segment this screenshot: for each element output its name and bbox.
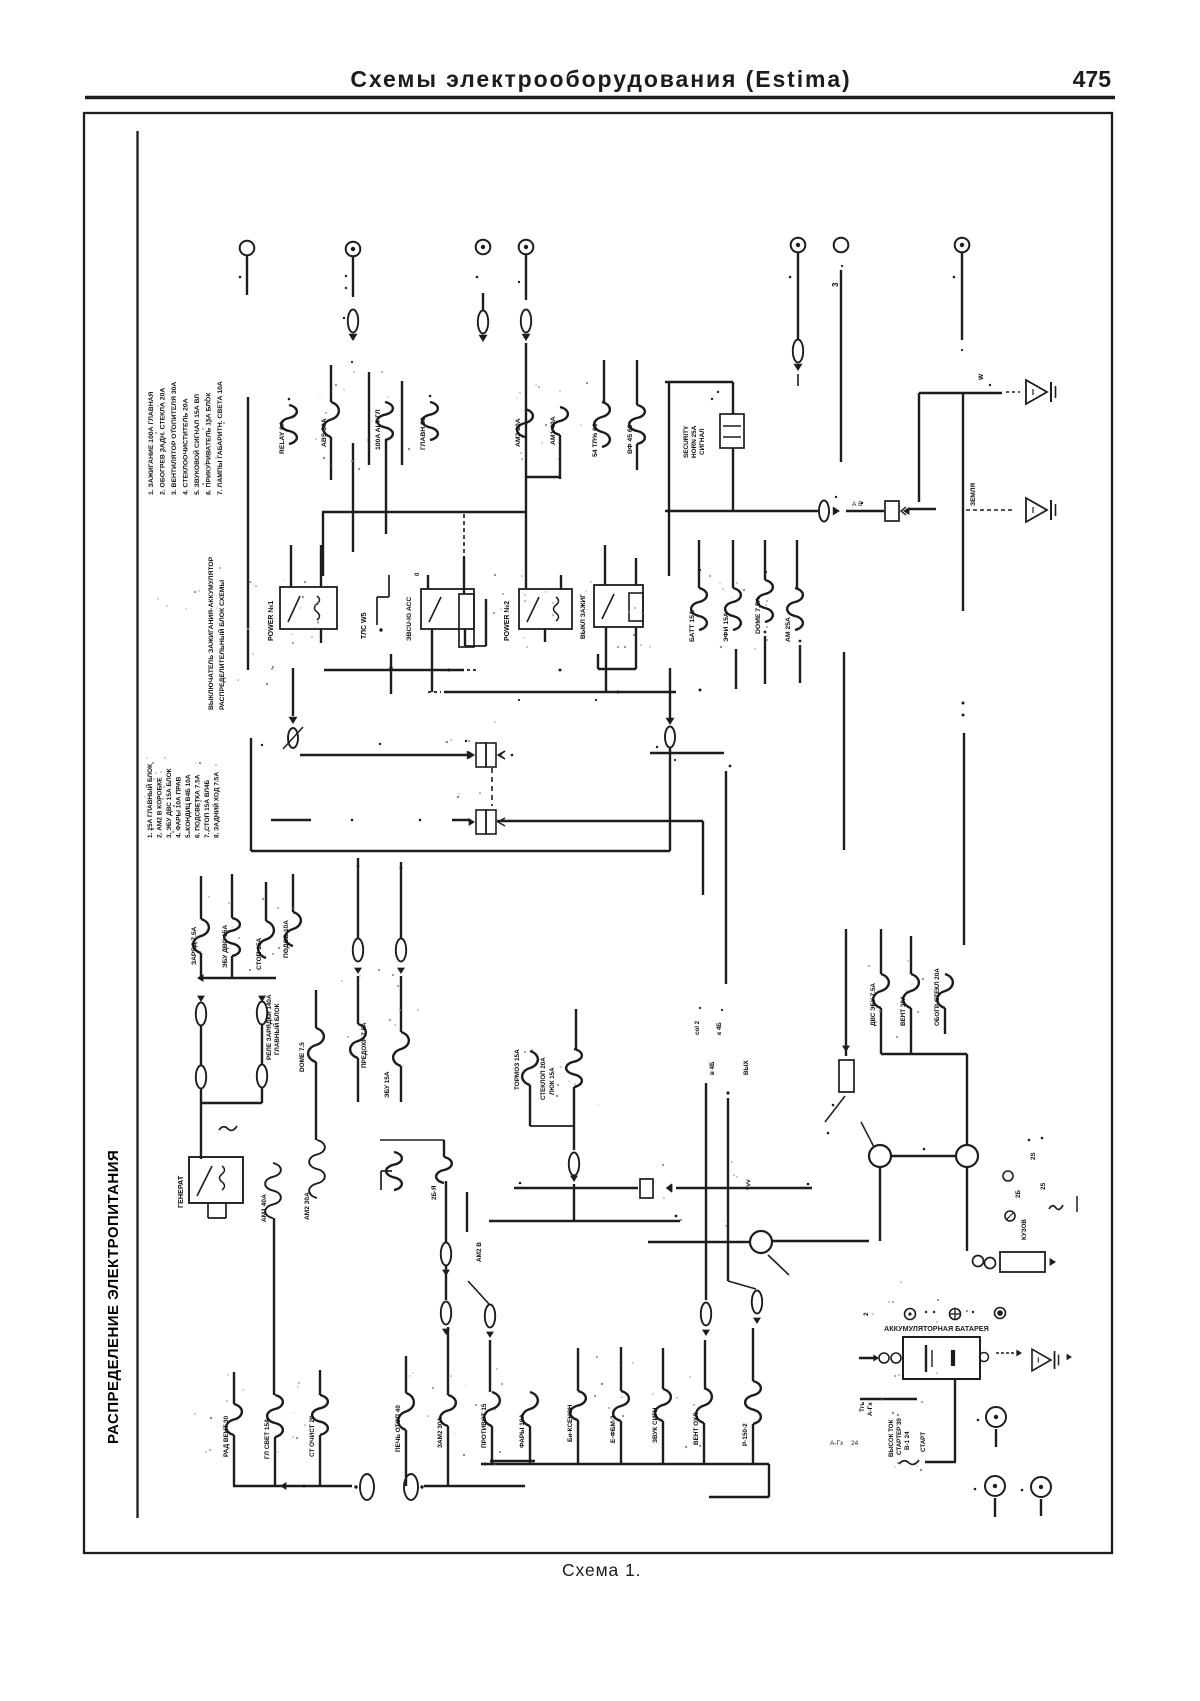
svg-text:Тгь: Тгь (859, 1402, 866, 1412)
svg-text:AM2 30A: AM2 30A (515, 418, 522, 447)
svg-text:2: 2 (863, 1312, 870, 1316)
svg-text:2S: 2S (1030, 1152, 1037, 1160)
svg-text:ОБОГР СТЕКЛ 20А: ОБОГР СТЕКЛ 20А (934, 968, 941, 1026)
svg-text:4. ФАРЫ 10А ПРАВ: 4. ФАРЫ 10А ПРАВ (176, 776, 183, 838)
svg-text:ПРЕДОХР 7.5А: ПРЕДОХР 7.5А (361, 1022, 368, 1068)
svg-text:АМ1 40А: АМ1 40А (261, 1194, 268, 1222)
svg-text:DOME 7.5: DOME 7.5 (299, 1042, 306, 1072)
svg-text:6. ПОДСВЕТКА 7.5А: 6. ПОДСВЕТКА 7.5А (195, 774, 202, 838)
svg-text:5. ЗВУКОВОЙ СИГНАЛ 15А ВЛ: 5. ЗВУКОВОЙ СИГНАЛ 15А ВЛ (192, 394, 201, 495)
svg-text:ТЛС W5: ТЛС W5 (361, 612, 368, 639)
svg-text:1. 25А ГЛАВНЫЙ БЛОК: 1. 25А ГЛАВНЫЙ БЛОК (145, 764, 154, 838)
svg-text:ЛЮК 15А: ЛЮК 15А (549, 1067, 556, 1095)
svg-text:2. АМ2 В КОРОБКЕ: 2. АМ2 В КОРОБКЕ (157, 777, 164, 838)
svg-text:100A ALT ГЛ: 100A ALT ГЛ (375, 409, 382, 450)
svg-text:СТАРТ: СТАРТ (920, 1432, 927, 1452)
svg-text:СТ ОЧИСТ 20: СТ ОЧИСТ 20 (309, 1415, 316, 1457)
svg-text:Би-КСЕНОН: Би-КСЕНОН (567, 1404, 574, 1442)
svg-text:ВФ 45 60: ВФ 45 60 (627, 424, 634, 454)
svg-text:ВЕНТ ОХЛ: ВЕНТ ОХЛ (693, 1412, 700, 1445)
svg-text:ГЛ СВЕТ 15А: ГЛ СВЕТ 15А (264, 1418, 271, 1459)
svg-text:РАСПРЕДЕЛЕНИЕ ЭЛЕКТРОПИТАНИЯ: РАСПРЕДЕЛЕНИЕ ЭЛЕКТРОПИТАНИЯ (105, 1150, 122, 1444)
svg-text:25: 25 (1040, 1182, 1047, 1190)
svg-text:ЭБУ ДВС 15А: ЭБУ ДВС 15А (222, 925, 229, 968)
svg-text:СИГНАЛ: СИГНАЛ (699, 428, 706, 455)
svg-text:ГЕНЕРАТ: ГЕНЕРАТ (176, 1175, 185, 1208)
svg-text:ГЛАВНЫЙ БЛОК: ГЛАВНЫЙ БЛОК (272, 1003, 281, 1055)
svg-text:3. ЭБУ ДВС 15А БЛОК: 3. ЭБУ ДВС 15А БЛОК (166, 768, 173, 838)
svg-text:ЗАМ2 30А: ЗАМ2 30А (437, 1417, 444, 1448)
svg-text:RELAY 6A: RELAY 6A (279, 421, 286, 454)
svg-text:ГЛАВН 80: ГЛАВН 80 (420, 417, 427, 450)
svg-text:СТАРТЕР 30: СТАРТЕР 30 (896, 1418, 903, 1455)
svg-text:АККУМУЛЯТОРНАЯ БАТАРЕЯ: АККУМУЛЯТОРНАЯ БАТАРЕЯ (884, 1324, 989, 1333)
svg-text:ПОДСВ 10А: ПОДСВ 10А (283, 920, 290, 958)
svg-text:ПРОТИВОТ 15: ПРОТИВОТ 15 (481, 1403, 488, 1448)
svg-text:ЭBCU-IG АСС: ЭBCU-IG АСС (406, 597, 413, 641)
svg-text:АМ2 30А: АМ2 30А (304, 1192, 311, 1220)
svg-text:ДВС ЭБУ 7.5А: ДВС ЭБУ 7.5А (870, 983, 877, 1026)
svg-text:Р-150-2: Р-150-2 (742, 1423, 749, 1446)
svg-text:ВЫХ: ВЫХ (743, 1059, 750, 1075)
svg-text:4. СТЕКЛООЧИСТИТЕЛЬ 20А: 4. СТЕКЛООЧИСТИТЕЛЬ 20А (183, 398, 190, 495)
svg-text:POWER №2: POWER №2 (503, 601, 511, 641)
svg-text:24: 24 (851, 1440, 859, 1447)
svg-text:в 4Б: в 4Б (709, 1061, 716, 1075)
svg-text:2. ОБОГРЕВ ЗАДН. СТЕКЛА 20А: 2. ОБОГРЕВ ЗАДН. СТЕКЛА 20А (160, 388, 167, 495)
svg-text:2Б: 2Б (1015, 1190, 1022, 1198)
svg-text:РАД ВЕНТ 30: РАД ВЕНТ 30 (223, 1415, 230, 1457)
svg-text:ВЫКЛ ЗАЖИГ: ВЫКЛ ЗАЖИГ (580, 594, 587, 639)
svg-text:А-Гх: А-Гх (867, 1402, 874, 1416)
svg-text:В-1 24: В-1 24 (904, 1431, 911, 1450)
svg-text:475: 475 (1073, 66, 1112, 92)
svg-text:W: W (978, 373, 985, 380)
svg-text:А Б: А Б (852, 501, 862, 508)
svg-text:ТОРМОЗ 15А: ТОРМОЗ 15А (514, 1049, 521, 1090)
svg-text:ЭБУ 15А: ЭБУ 15А (384, 1071, 391, 1098)
svg-text:КУЗОВ: КУЗОВ (1021, 1219, 1028, 1240)
svg-text:2Б-Я: 2Б-Я (431, 1185, 438, 1200)
svg-text:РАСПРЕДЕЛИТЕЛЬНЫЙ БЛОК СХЕМЫ: РАСПРЕДЕЛИТЕЛЬНЫЙ БЛОК СХЕМЫ (217, 580, 226, 710)
svg-text:СТОП 15А: СТОП 15А (256, 938, 263, 970)
svg-text:АМ 25А: АМ 25А (785, 617, 792, 642)
svg-text:ВЫСОК ТОК: ВЫСОК ТОК (888, 1419, 895, 1457)
svg-text:col 2: col 2 (694, 1020, 701, 1035)
svg-text:РЕЛЕ ЗАРЯДКИ 140А: РЕЛЕ ЗАРЯДКИ 140А (266, 994, 273, 1060)
svg-text:СТЕКЛОП 20А: СТЕКЛОП 20А (540, 1057, 547, 1100)
svg-text:HORN 25А: HORN 25А (691, 425, 698, 458)
svg-text:БАТТ 15А: БАТТ 15А (689, 610, 696, 642)
svg-text:ВЕНТ 30А: ВЕНТ 30А (900, 995, 907, 1026)
svg-text:6. ПРИКУРИВАТЕЛЬ 15А БЛОК: 6. ПРИКУРИВАТЕЛЬ 15А БЛОК (206, 392, 213, 495)
svg-text:POWER №1: POWER №1 (267, 601, 275, 641)
svg-text:5. КОНДИЦ В4Б 10А: 5. КОНДИЦ В4Б 10А (185, 774, 192, 838)
svg-text:3: 3 (831, 282, 840, 287)
svg-text:А-Гх: А-Гх (830, 1440, 844, 1447)
svg-text:ЗАРЯД 7.5А: ЗАРЯД 7.5А (191, 926, 198, 965)
svg-text:Е-ФБМ-2: Е-ФБМ-2 (610, 1415, 617, 1443)
svg-text:AM1 40A: AM1 40A (550, 416, 557, 445)
svg-text:ВЫКЛЮЧАТЕЛЬ ЗАЖИГАНИЯ-АККУМУЛЯ: ВЫКЛЮЧАТЕЛЬ ЗАЖИГАНИЯ-АККУМУЛЯТОР (208, 556, 215, 710)
svg-text:АМ2 В: АМ2 В (476, 1242, 483, 1262)
svg-text:Схемы электрооборудования (Est: Схемы электрооборудования (Estima) (350, 66, 851, 92)
svg-text:7. ЛАМПЫ ГАБАРИТН. СВЕТА 10А: 7. ЛАМПЫ ГАБАРИТН. СВЕТА 10А (217, 381, 224, 495)
svg-text:ФАРЫ 10А: ФАРЫ 10А (519, 1414, 526, 1448)
svg-text:ЗВУК СИГН: ЗВУК СИГН (652, 1407, 659, 1443)
svg-text:ЭФИ 15А: ЭФИ 15А (723, 612, 730, 642)
svg-text:54 ТЛ% 60: 54 ТЛ% 60 (592, 423, 599, 457)
svg-text:ПЕЧЬ ОТОП 40: ПЕЧЬ ОТОП 40 (395, 1405, 402, 1452)
svg-text:DOME 7.5А: DOME 7.5А (755, 597, 762, 634)
svg-text:3. ВЕНТИЛЯТОР ОТОПИТЕЛЯ 30А: 3. ВЕНТИЛЯТОР ОТОПИТЕЛЯ 30А (171, 382, 178, 495)
svg-text:SECURITY: SECURITY (683, 425, 690, 458)
svg-text:ЗЕМЛЯ: ЗЕМЛЯ (970, 483, 977, 506)
svg-text:к 4Б: к 4Б (716, 1022, 723, 1035)
svg-text:7. СТОП 15А ВЛ4Б: 7. СТОП 15А ВЛ4Б (204, 779, 211, 838)
svg-text:Схема 1.: Схема 1. (562, 1560, 641, 1580)
